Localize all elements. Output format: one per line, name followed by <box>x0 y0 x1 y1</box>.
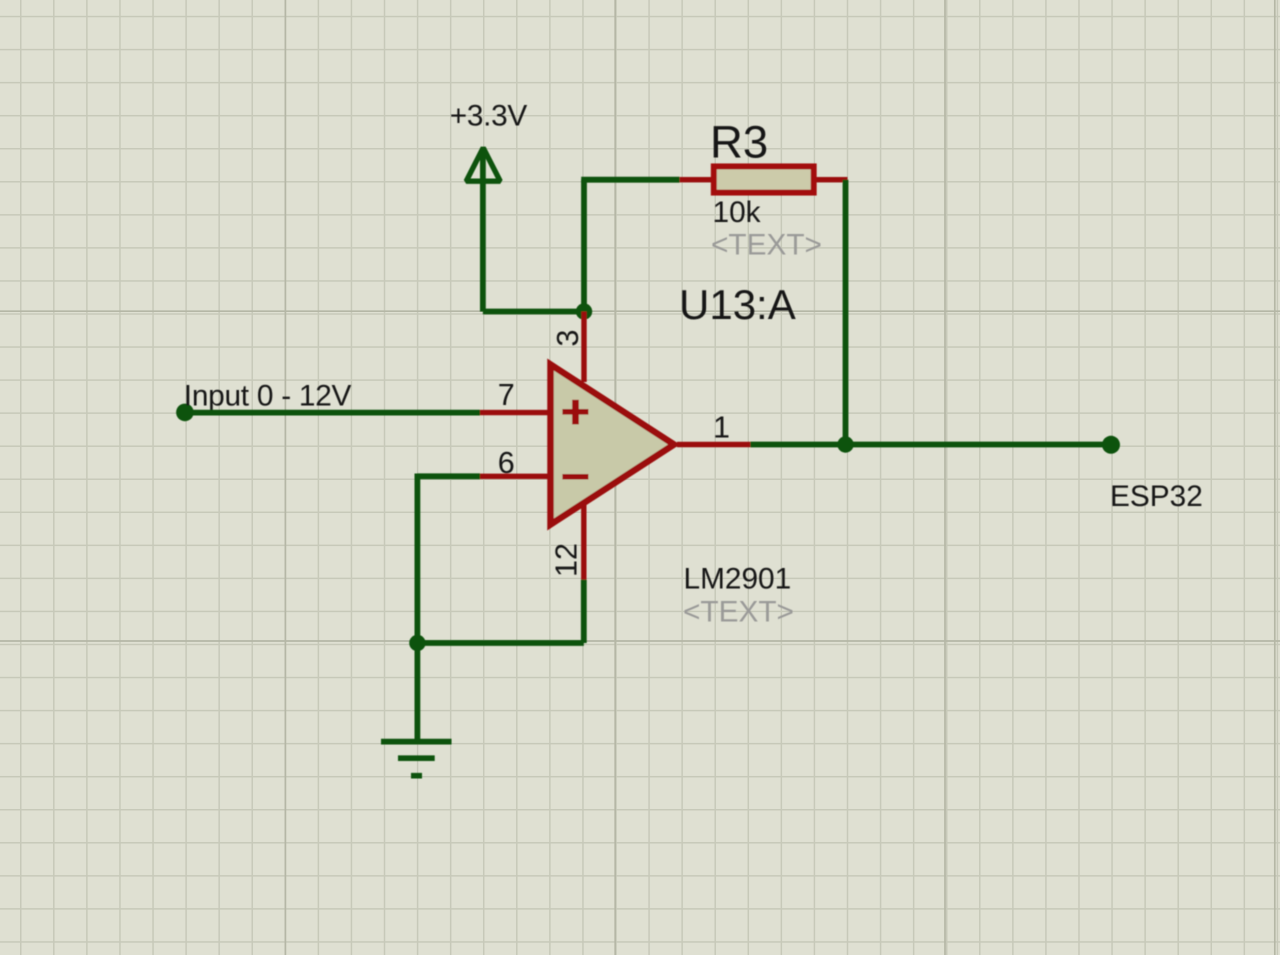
wire output to ESP32 node <box>750 442 1111 448</box>
wire pin6 horizontal <box>417 473 480 479</box>
wire pin6 vertical down <box>414 474 420 644</box>
svg-text:ESP32: ESP32 <box>1110 480 1203 513</box>
pin 3 stub <box>581 312 586 383</box>
pin 1 stub <box>677 442 750 447</box>
resistor R3 body <box>714 166 814 192</box>
junction dot output feedback <box>837 436 853 452</box>
op-amp minus mark <box>562 474 588 480</box>
op-amp U13:A body <box>551 365 675 525</box>
wire power horizontal to junction <box>483 309 584 315</box>
op-amp plus mark <box>562 400 588 425</box>
wire feedback top horizontal <box>581 177 679 183</box>
resistor R3 left pin <box>680 177 714 182</box>
svg-text:1: 1 <box>713 411 730 445</box>
svg-text:12: 12 <box>550 543 584 577</box>
svg-text:7: 7 <box>498 378 515 412</box>
svg-text:<TEXT>: <TEXT> <box>683 595 794 628</box>
wire bottom horizontal <box>417 640 583 646</box>
junction dot at pin3 node <box>576 303 592 319</box>
wire feedback vertical down <box>843 180 849 445</box>
svg-text:Input 0 - 12V: Input 0 - 12V <box>184 379 352 412</box>
pin 12 stub <box>581 505 586 580</box>
svg-text:<TEXT>: <TEXT> <box>711 228 822 261</box>
pin 6 stub <box>480 474 548 479</box>
ground symbol <box>381 742 452 776</box>
svg-text:U13:A: U13:A <box>679 281 796 328</box>
svg-text:10k: 10k <box>713 196 761 229</box>
svg-text:+3.3V: +3.3V <box>450 100 528 133</box>
wire junction up to feedback row <box>581 180 587 312</box>
node dot ESP32 terminal <box>1102 436 1120 454</box>
node dot input terminal <box>176 404 194 422</box>
svg-text:3: 3 <box>551 330 585 347</box>
svg-text:LM2901: LM2901 <box>684 562 792 595</box>
wire input to pin7 <box>185 410 480 416</box>
svg-text:R3: R3 <box>710 117 768 168</box>
wire power shaft vertical <box>480 149 486 312</box>
power +3.3V arrow symbol <box>466 148 500 181</box>
svg-text:6: 6 <box>498 446 515 480</box>
wire pin12 vertical green <box>581 580 587 643</box>
wire ground vertical <box>414 643 420 742</box>
pin 7 stub <box>480 410 548 415</box>
junction dot at ground node <box>409 635 425 651</box>
resistor R3 right pin <box>813 177 848 182</box>
